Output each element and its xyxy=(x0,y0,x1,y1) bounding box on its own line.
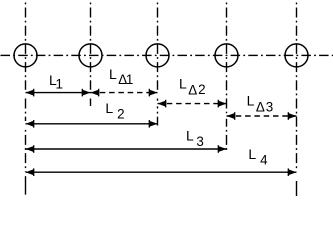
svg-text:L: L xyxy=(179,76,187,92)
svg-text:L: L xyxy=(186,128,194,144)
svg-text:L: L xyxy=(247,93,255,109)
svg-text:1: 1 xyxy=(56,76,63,91)
svg-text:3: 3 xyxy=(266,100,273,115)
svg-text:L: L xyxy=(105,100,113,116)
svg-text:Δ: Δ xyxy=(256,100,265,115)
svg-text:L: L xyxy=(109,66,117,82)
svg-text:2: 2 xyxy=(117,106,124,121)
svg-text:1: 1 xyxy=(126,72,133,87)
svg-text:L: L xyxy=(248,146,256,162)
svg-text:3: 3 xyxy=(196,134,203,149)
svg-text:Δ: Δ xyxy=(188,83,197,98)
svg-text:4: 4 xyxy=(260,153,268,168)
svg-text:2: 2 xyxy=(198,82,205,97)
